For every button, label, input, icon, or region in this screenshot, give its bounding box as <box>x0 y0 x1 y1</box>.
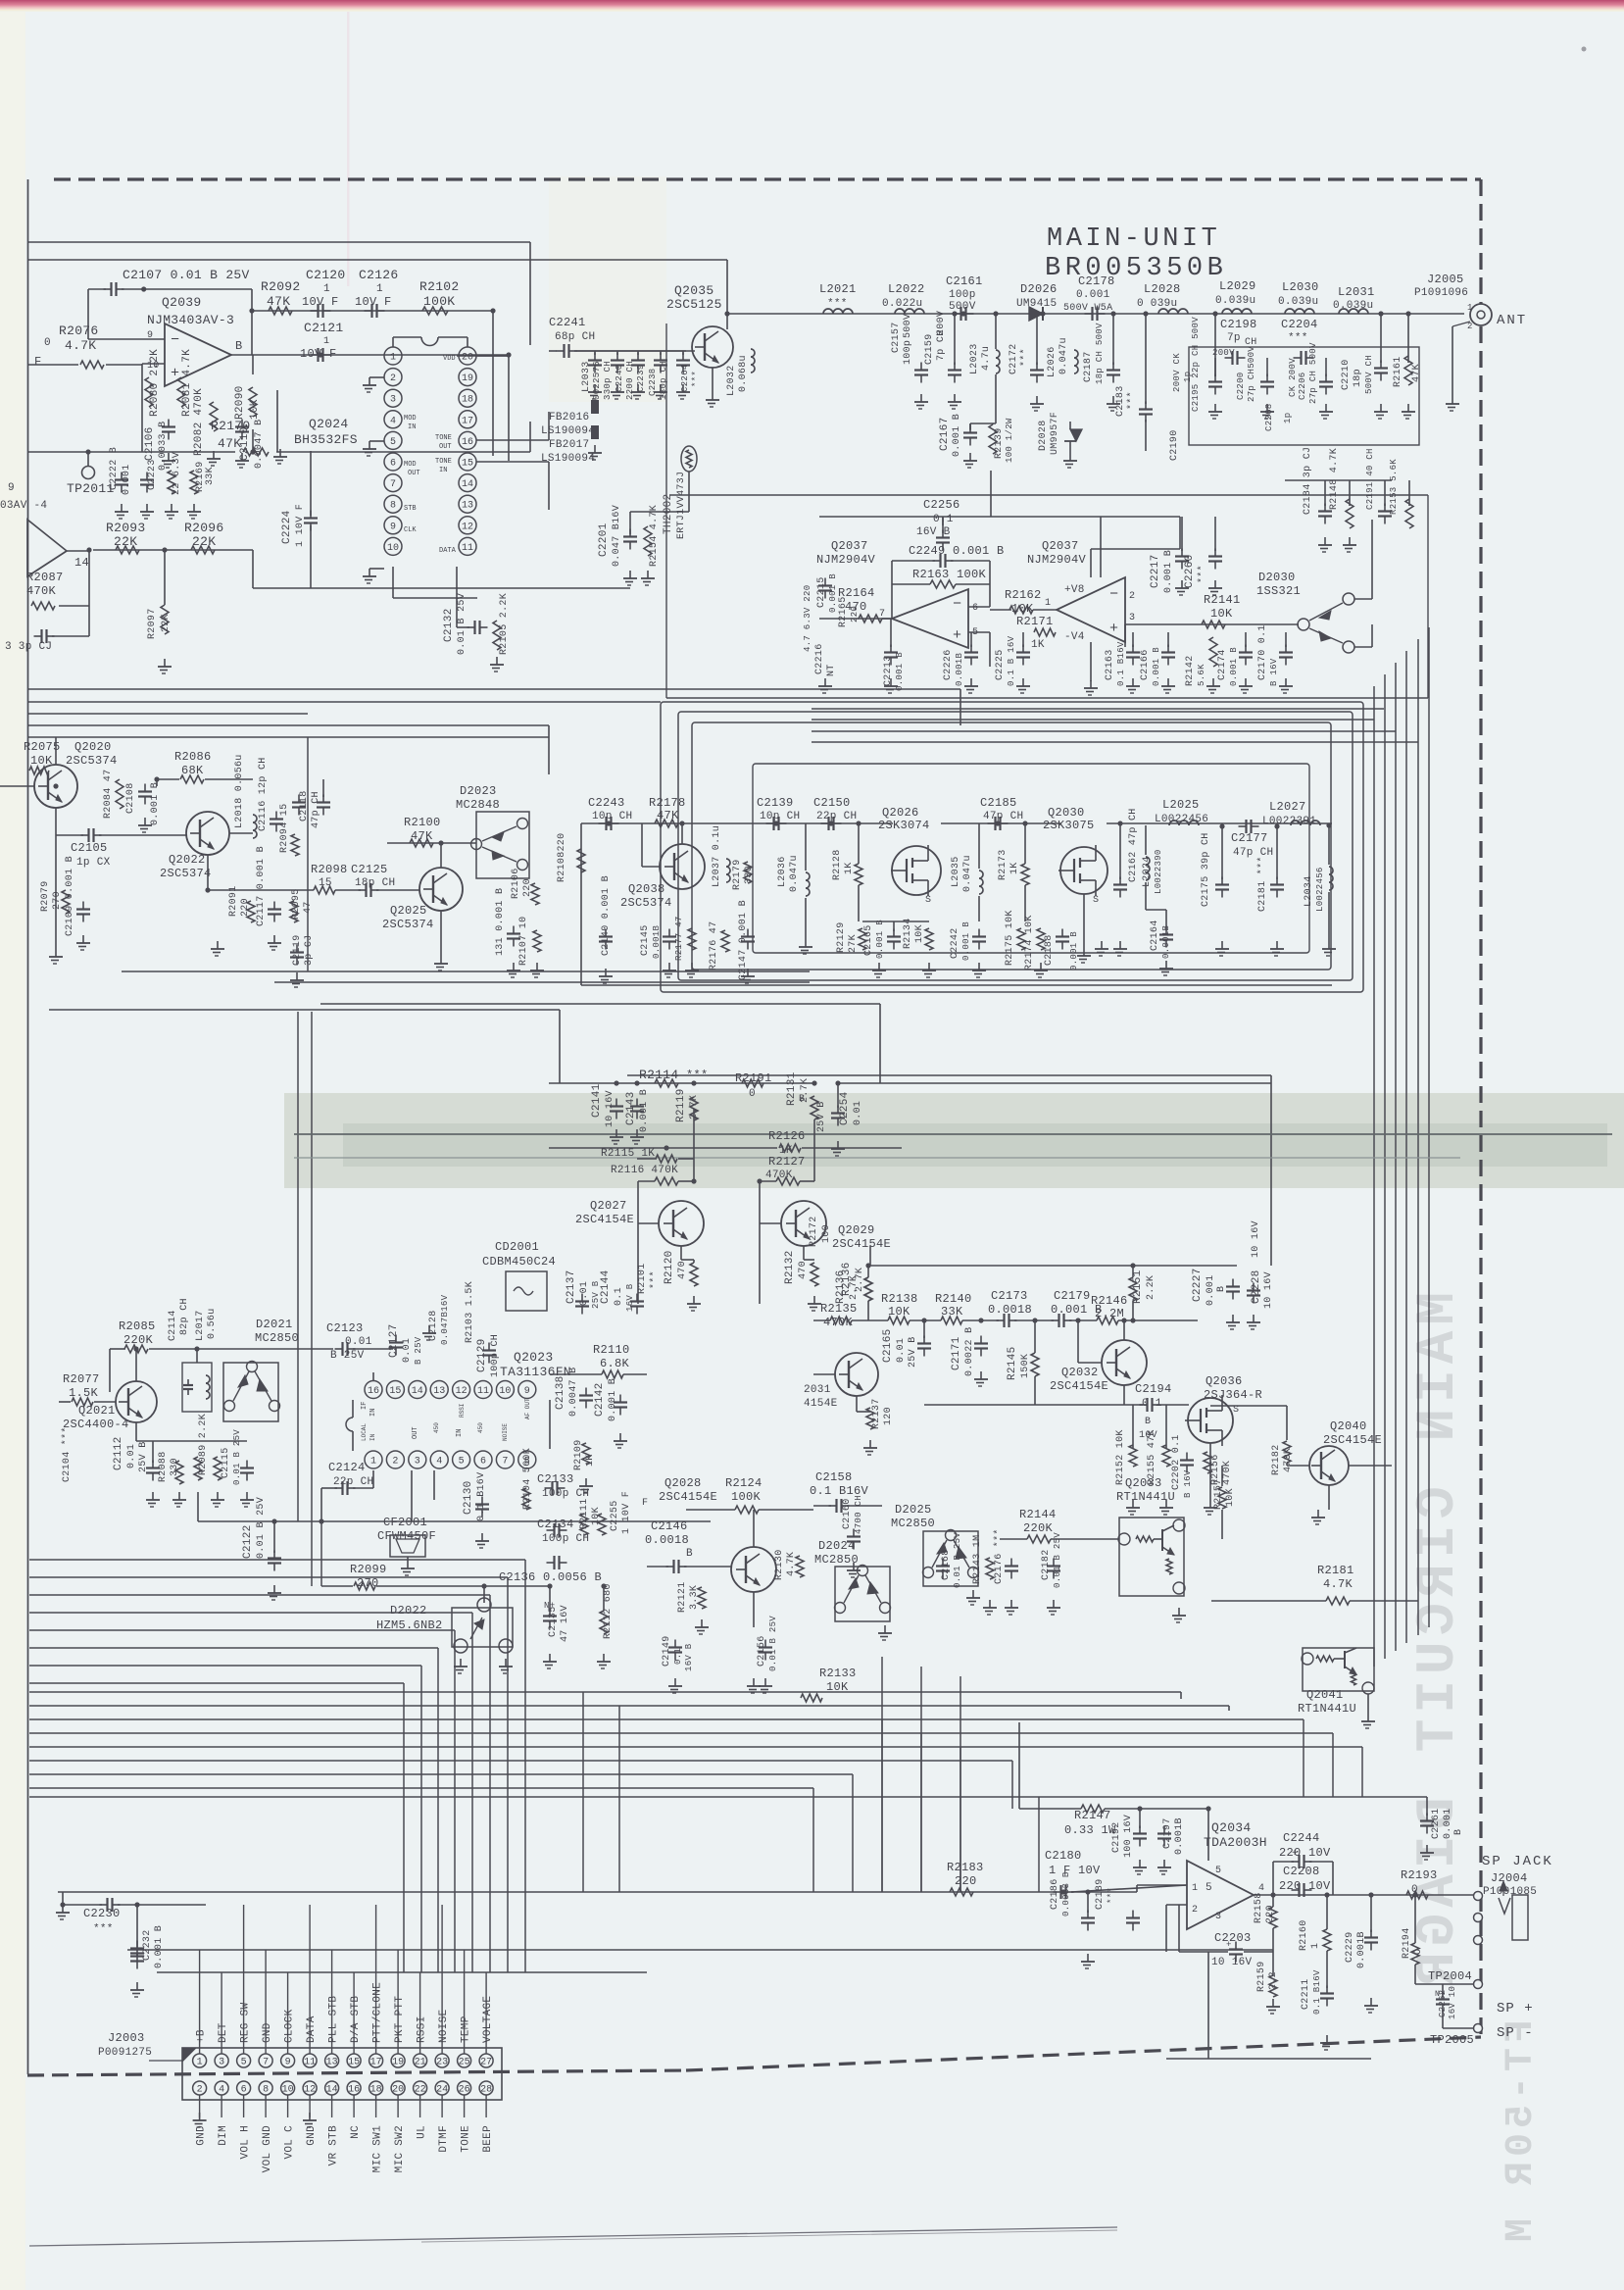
svg-text:33K: 33K <box>205 467 216 485</box>
svg-text:R2129: R2129 <box>836 921 847 953</box>
svg-text:C2244: C2244 <box>1283 1831 1320 1845</box>
svg-text:NJM2904V: NJM2904V <box>1027 553 1087 567</box>
svg-text:C2230: C2230 <box>83 1907 121 1920</box>
svg-text:18: 18 <box>370 2085 382 2096</box>
svg-text:MAIN-UNIT: MAIN-UNIT <box>1047 224 1220 254</box>
svg-text:6: 6 <box>390 459 396 470</box>
svg-text:2SC4154E: 2SC4154E <box>832 1237 891 1251</box>
svg-text:C2139: C2139 <box>757 796 794 810</box>
svg-text:MIC SW2: MIC SW2 <box>394 2125 406 2172</box>
svg-text:0.0047 B: 0.0047 B <box>568 1368 579 1417</box>
svg-text:CK 200V: CK 200V <box>1288 358 1298 397</box>
svg-text:Q2040: Q2040 <box>1330 1419 1367 1433</box>
svg-text:0.001 B: 0.001 B <box>961 921 971 961</box>
svg-text:4700 CH: 4700 CH <box>854 1495 863 1534</box>
svg-text:R2132: R2132 <box>784 1250 796 1284</box>
svg-text:4: 4 <box>219 2085 224 2096</box>
svg-text:R2130: R2130 <box>774 1549 785 1580</box>
svg-text:15: 15 <box>462 459 473 470</box>
svg-text:10K: 10K <box>914 924 925 943</box>
svg-text:68p CH: 68p CH <box>555 331 595 343</box>
svg-text:OUT: OUT <box>439 443 452 451</box>
svg-text:C2217: C2217 <box>1150 554 1161 588</box>
svg-text:R2119: R2119 <box>675 1088 687 1122</box>
svg-text:C2130: C2130 <box>463 1480 474 1515</box>
svg-text:Q2020: Q2020 <box>74 740 112 754</box>
svg-text:2031: 2031 <box>804 1384 831 1396</box>
svg-text:0: 0 <box>44 337 51 349</box>
svg-text:Q2027: Q2027 <box>590 1199 627 1213</box>
svg-text:C2241: C2241 <box>549 316 586 329</box>
svg-text:3 3p CJ: 3 3p CJ <box>5 641 52 653</box>
svg-text:10K: 10K <box>1225 1488 1236 1507</box>
svg-text:33K: 33K <box>941 1305 963 1319</box>
svg-text:4.7K: 4.7K <box>786 1552 797 1576</box>
svg-text:10 16V: 10 16V <box>1251 1220 1261 1258</box>
svg-text:R2136: R2136 <box>835 1269 847 1304</box>
svg-text:C2118: C2118 <box>299 790 310 821</box>
svg-text:0.01: 0.01 <box>126 1444 137 1469</box>
svg-text:7: 7 <box>263 2058 269 2068</box>
svg-text:R2177 47: R2177 47 <box>674 916 684 961</box>
svg-text:L2028: L2028 <box>1144 282 1181 296</box>
svg-text:2SC4154E: 2SC4154E <box>575 1213 634 1226</box>
svg-text:12: 12 <box>304 2085 316 2096</box>
svg-text:3: 3 <box>1215 1912 1221 1922</box>
svg-text:R2092: R2092 <box>261 279 301 294</box>
svg-text:D2025: D2025 <box>895 1503 932 1517</box>
svg-text:2: 2 <box>1192 1905 1198 1916</box>
svg-text:0.0047 B: 0.0047 B <box>254 420 265 469</box>
svg-text:OUT: OUT <box>408 470 420 477</box>
svg-text:1: 1 <box>1045 598 1051 609</box>
svg-text:03AV -4: 03AV -4 <box>0 500 47 512</box>
svg-text:0.01: 0.01 <box>345 1336 372 1348</box>
svg-text:330p CH: 330p CH <box>603 361 613 400</box>
svg-text:47K: 47K <box>657 809 679 822</box>
svg-text:GND: GND <box>196 2125 208 2146</box>
svg-text:47K: 47K <box>411 829 433 843</box>
svg-text:8: 8 <box>390 501 396 512</box>
svg-text:C2228: C2228 <box>1251 1269 1262 1304</box>
svg-text:21: 21 <box>415 2058 426 2068</box>
svg-text:1: 1 <box>1192 1883 1198 1894</box>
svg-text:C2225: C2225 <box>995 649 1006 680</box>
svg-text:R2094 15: R2094 15 <box>279 804 290 853</box>
svg-text:RSSI: RSSI <box>459 1404 466 1418</box>
svg-text:1 10V F: 1 10V F <box>621 1491 632 1534</box>
svg-text:9: 9 <box>147 330 153 341</box>
svg-text:L2025: L2025 <box>1162 798 1200 812</box>
svg-text:NC: NC <box>350 2125 362 2139</box>
svg-text:C2137: C2137 <box>566 1269 577 1304</box>
svg-text:***: *** <box>686 1069 709 1082</box>
svg-text:L2031: L2031 <box>1338 285 1375 299</box>
svg-text:R2098: R2098 <box>311 863 348 876</box>
svg-text:B: B <box>1216 1286 1227 1292</box>
svg-text:18p CH 500V: 18p CH 500V <box>1095 323 1105 384</box>
svg-text:R2096: R2096 <box>184 521 224 535</box>
svg-text:TONE: TONE <box>461 2125 472 2153</box>
svg-text:MOD: MOD <box>404 461 417 469</box>
svg-text:C2255: C2255 <box>610 1500 620 1531</box>
svg-text:C2179: C2179 <box>1054 1289 1091 1303</box>
svg-text:BEEP: BEEP <box>482 2125 494 2153</box>
svg-text:R2102: R2102 <box>419 279 460 294</box>
svg-text:C2132: C2132 <box>443 608 455 642</box>
svg-text:***: *** <box>1107 1887 1116 1904</box>
svg-text:FB2016: FB2016 <box>549 412 589 423</box>
svg-text:0.1 B16V: 0.1 B16V <box>1116 641 1126 686</box>
svg-text:C2188: C2188 <box>1044 934 1055 966</box>
svg-text:0.001 B: 0.001 B <box>150 782 161 825</box>
svg-text:2: 2 <box>390 373 396 384</box>
svg-text:R2133: R2133 <box>819 1667 857 1680</box>
svg-text:220: 220 <box>955 1874 977 1888</box>
svg-text:10K: 10K <box>249 399 261 420</box>
svg-text:R2174 10K: R2174 10K <box>1024 915 1035 971</box>
svg-text:B 25V: B 25V <box>414 1336 423 1365</box>
svg-text:R2082 470K: R2082 470K <box>193 388 205 456</box>
svg-text:R2076: R2076 <box>59 324 99 338</box>
svg-text:L2023: L2023 <box>969 343 980 374</box>
svg-text:10 16V: 10 16V <box>605 1090 615 1127</box>
svg-text:11: 11 <box>477 1386 489 1397</box>
svg-text:12: 12 <box>462 522 473 532</box>
svg-text:2SJ364-R: 2SJ364-R <box>1204 1388 1262 1402</box>
svg-text:C2104 ***: C2104 *** <box>61 1426 73 1482</box>
svg-text:0.047u: 0.047u <box>962 855 973 892</box>
svg-text:D2021: D2021 <box>256 1318 293 1331</box>
svg-text:10 16V: 10 16V <box>1211 1957 1253 1968</box>
svg-text:MC2850: MC2850 <box>255 1331 299 1345</box>
svg-text:0.001 B: 0.001 B <box>828 573 838 613</box>
svg-text:F: F <box>642 1498 648 1509</box>
svg-text:L2030: L2030 <box>1282 280 1319 294</box>
svg-text:150K: 150K <box>1020 1354 1031 1378</box>
svg-text:C2143: C2143 <box>625 1091 637 1125</box>
svg-text:2: 2 <box>1129 591 1135 602</box>
svg-text:C2123: C2123 <box>326 1321 364 1335</box>
svg-text:R2193: R2193 <box>1401 1868 1438 1882</box>
svg-text:1: 1 <box>1467 303 1473 313</box>
svg-text:Q2036: Q2036 <box>1206 1374 1243 1388</box>
svg-text:R2124: R2124 <box>725 1476 763 1490</box>
svg-text:13: 13 <box>326 2058 338 2068</box>
svg-text:C2200: C2200 <box>1236 372 1246 400</box>
svg-text:IF: IF <box>361 1402 369 1410</box>
svg-text:DTMF: DTMF <box>438 2125 450 2153</box>
svg-text:14: 14 <box>326 2085 338 2096</box>
svg-text:6: 6 <box>241 2085 247 2096</box>
svg-text:D2023: D2023 <box>460 784 497 798</box>
svg-text:R2159: R2159 <box>1256 1961 1267 1992</box>
svg-text:R2170: R2170 <box>211 419 251 433</box>
svg-text:0.001: 0.001 <box>1076 289 1110 301</box>
svg-text:0.039u: 0.039u <box>1278 296 1318 308</box>
svg-text:C2191 40 CH: C2191 40 CH <box>1365 448 1375 510</box>
svg-text:REG SW: REG SW <box>240 2002 252 2043</box>
svg-text:16V B: 16V B <box>916 526 951 538</box>
svg-text:2SC5374: 2SC5374 <box>66 754 118 768</box>
svg-text:4.7K: 4.7K <box>1323 1577 1353 1591</box>
svg-text:8: 8 <box>263 2085 269 2096</box>
svg-text:L2021: L2021 <box>819 282 857 296</box>
svg-text:NOISE: NOISE <box>502 1423 509 1441</box>
svg-text:0.0033 B: 0.0033 B <box>158 422 169 471</box>
svg-text:R2081 4.7K: R2081 4.7K <box>181 349 193 417</box>
svg-text:C2161: C2161 <box>946 274 983 288</box>
svg-text:C2243: C2243 <box>588 796 625 810</box>
svg-text:47K: 47K <box>218 436 241 451</box>
svg-text:0.01: 0.01 <box>896 1338 907 1363</box>
svg-text:1 F 10V: 1 F 10V <box>1049 1864 1101 1877</box>
svg-text:6: 6 <box>480 1457 486 1468</box>
svg-text:100p: 100p <box>949 289 976 301</box>
svg-text:C2181 ***: C2181 *** <box>1256 856 1268 912</box>
svg-text:C2178: C2178 <box>1078 274 1115 288</box>
svg-text:6.8K: 6.8K <box>600 1357 630 1370</box>
svg-text:TONE: TONE <box>435 458 452 466</box>
svg-text:25V B: 25V B <box>908 1336 918 1368</box>
svg-text:C2126: C2126 <box>359 268 399 282</box>
svg-text:100p: 100p <box>903 340 913 365</box>
svg-text:15: 15 <box>348 2058 360 2068</box>
svg-text:0.1: 0.1 <box>614 1287 624 1306</box>
svg-text:R2101: R2101 <box>637 1263 648 1294</box>
svg-text:L2033: L2033 <box>581 361 592 392</box>
svg-text:PTT/CLONE: PTT/CLONE <box>372 1982 384 2043</box>
svg-text:17: 17 <box>462 416 473 426</box>
svg-text:Q2032: Q2032 <box>1061 1366 1099 1379</box>
svg-text:C2239: C2239 <box>636 364 646 392</box>
svg-text:Q2025: Q2025 <box>390 904 427 918</box>
svg-text:R2143 1M: R2143 1M <box>972 1535 983 1584</box>
svg-text:18: 18 <box>462 395 473 406</box>
svg-text:R2144: R2144 <box>1019 1508 1057 1521</box>
svg-text:Q2039: Q2039 <box>162 295 202 310</box>
svg-text:IN: IN <box>369 1409 377 1417</box>
svg-text:D2030: D2030 <box>1258 571 1296 584</box>
svg-text:0.0018: 0.0018 <box>645 1533 689 1547</box>
svg-text:11: 11 <box>304 2058 316 2068</box>
svg-text:TH2002: TH2002 <box>663 494 674 534</box>
svg-text:22 6.3V: 22 6.3V <box>172 452 182 495</box>
svg-text:C2105: C2105 <box>71 841 108 855</box>
svg-text:R2141: R2141 <box>1204 593 1241 607</box>
svg-text:6: 6 <box>972 603 978 614</box>
svg-text:MOD: MOD <box>404 415 417 423</box>
svg-text:0.01 B 25V: 0.01 B 25V <box>457 593 468 655</box>
svg-text:220: 220 <box>522 878 533 897</box>
svg-text:R2175 10K: R2175 10K <box>1005 910 1015 966</box>
svg-text:VOL GND: VOL GND <box>262 2125 273 2172</box>
svg-text:20: 20 <box>462 353 473 364</box>
svg-text:B: B <box>235 339 243 353</box>
svg-text:27p CH 500V: 27p CH 500V <box>1308 342 1318 404</box>
svg-text:MC2850: MC2850 <box>814 1553 859 1567</box>
svg-text:3: 3 <box>390 395 396 406</box>
svg-text:L2032: L2032 <box>726 365 737 396</box>
svg-text:RSSI: RSSI <box>417 2016 428 2043</box>
svg-text:9: 9 <box>390 522 396 532</box>
svg-text:100: 100 <box>821 1224 832 1243</box>
svg-text:Q2038: Q2038 <box>628 882 665 896</box>
svg-text:R2088: R2088 <box>158 1451 169 1482</box>
svg-text:IN: IN <box>439 467 447 474</box>
svg-text:0.039u: 0.039u <box>1215 295 1255 307</box>
svg-text:2SK3075: 2SK3075 <box>1043 819 1095 832</box>
svg-text:R2165: R2165 <box>838 596 849 627</box>
svg-text:C2136 0.0056 B: C2136 0.0056 B <box>499 1570 602 1584</box>
svg-text:C2162 47p CH: C2162 47p CH <box>1128 808 1139 882</box>
svg-text:C2198: C2198 <box>1220 318 1257 331</box>
svg-text:R2160: R2160 <box>1299 1919 1309 1951</box>
svg-text:R2127: R2127 <box>768 1155 806 1169</box>
svg-text:4: 4 <box>436 1457 442 1468</box>
svg-text:0.047B16V: 0.047B16V <box>440 1294 450 1345</box>
svg-text:C2175 39p CH: C2175 39p CH <box>1201 832 1211 907</box>
svg-text:R2139: R2139 <box>994 427 1005 459</box>
svg-text:22p CH: 22p CH <box>816 811 857 822</box>
svg-text:C2108: C2108 <box>125 782 136 814</box>
svg-text:R2134: R2134 <box>903 918 913 949</box>
svg-text:C2146: C2146 <box>651 1519 688 1533</box>
svg-text:47p CH: 47p CH <box>311 791 321 828</box>
svg-text:−: − <box>953 596 961 613</box>
svg-text:13: 13 <box>462 501 473 512</box>
svg-text:C2211: C2211 <box>1301 1978 1311 2010</box>
svg-text:C2164: C2164 <box>1150 920 1160 951</box>
svg-text:C2222 B: C2222 B <box>109 447 120 490</box>
svg-text:1K: 1K <box>1009 862 1020 874</box>
svg-text:R2131: R2131 <box>786 1071 798 1106</box>
svg-text:20: 20 <box>392 2085 404 2096</box>
svg-text:PKT PTT: PKT PTT <box>394 1996 406 2043</box>
svg-text:14: 14 <box>74 556 89 570</box>
svg-text:R2173: R2173 <box>998 849 1009 880</box>
svg-text:R2153 5.6K: R2153 5.6K <box>1389 459 1399 515</box>
svg-text:C2147 0.001 B: C2147 0.001 B <box>738 900 749 980</box>
svg-text:0.01 B 25V: 0.01 B 25V <box>953 1532 962 1588</box>
svg-text:0.001 B: 0.001 B <box>875 920 885 959</box>
svg-text:FT-50R M: FT-50R M <box>1500 2019 1544 2247</box>
svg-text:L2035: L2035 <box>951 856 961 887</box>
svg-text:C2202 0.1: C2202 0.1 <box>1171 1434 1182 1490</box>
svg-text:0.01: 0.01 <box>402 1338 413 1363</box>
svg-text:0.001 B: 0.001 B <box>1152 647 1161 686</box>
svg-text:R2089 2.2K: R2089 2.2K <box>198 1414 209 1475</box>
svg-text:Q2023: Q2023 <box>514 1350 554 1365</box>
svg-text:10: 10 <box>387 543 399 554</box>
svg-text:C2173: C2173 <box>991 1289 1028 1303</box>
svg-text:FB2017: FB2017 <box>549 439 589 451</box>
svg-text:C2192: C2192 <box>1111 1821 1122 1853</box>
svg-text:Q2028: Q2028 <box>664 1476 702 1490</box>
svg-text:B: B <box>686 1548 693 1560</box>
svg-text:B: B <box>1453 1829 1464 1835</box>
svg-text:Q2035: Q2035 <box>674 283 714 298</box>
svg-text:C2127: C2127 <box>388 1323 400 1358</box>
svg-text:16: 16 <box>462 437 473 448</box>
svg-text:***: *** <box>1197 565 1208 583</box>
svg-text:0.001 B: 0.001 B <box>154 1925 165 1968</box>
svg-text:100 16V: 100 16V <box>1123 1815 1134 1858</box>
svg-text:10p CH: 10p CH <box>592 811 632 822</box>
svg-text:R2145: R2145 <box>1007 1346 1018 1380</box>
svg-text:26: 26 <box>459 2085 470 2096</box>
svg-text:DIM: DIM <box>218 2125 229 2146</box>
svg-text:C2125: C2125 <box>351 863 388 876</box>
svg-text:VOLTAGE: VOLTAGE <box>482 1996 494 2043</box>
svg-text:2SC5374: 2SC5374 <box>382 918 434 931</box>
svg-text:L2017: L2017 <box>195 1310 206 1341</box>
svg-text:GND: GND <box>262 2022 273 2043</box>
svg-text:C2180: C2180 <box>1045 1849 1082 1863</box>
svg-text:0.047u: 0.047u <box>789 855 800 892</box>
svg-text:131 0.001 B: 131 0.001 B <box>495 888 506 956</box>
svg-text:450: 450 <box>433 1422 440 1433</box>
svg-text:R2075: R2075 <box>24 740 61 754</box>
svg-text:C2194: C2194 <box>1135 1382 1172 1396</box>
svg-text:C2186: C2186 <box>1050 1878 1060 1910</box>
svg-text:R2147: R2147 <box>1074 1809 1111 1822</box>
svg-text:L2022: L2022 <box>888 282 925 296</box>
svg-text:9: 9 <box>8 482 15 494</box>
svg-text:IN: IN <box>456 1429 464 1437</box>
svg-text:0.001 B: 0.001 B <box>1163 550 1174 593</box>
svg-text:C2167: C2167 <box>939 417 951 451</box>
svg-text:0.0022 B: 0.0022 B <box>964 1327 975 1376</box>
svg-text:C2122: C2122 <box>242 1524 254 1559</box>
svg-text:5.6K: 5.6K <box>1197 664 1206 686</box>
svg-text:100p CH: 100p CH <box>542 1488 589 1500</box>
svg-text:C2159: C2159 <box>924 333 935 365</box>
svg-text:C2216: C2216 <box>814 643 825 674</box>
svg-text:25: 25 <box>459 2058 470 2068</box>
svg-text:47p CH: 47p CH <box>983 811 1023 822</box>
svg-text:1: 1 <box>370 1457 376 1468</box>
svg-text:220: 220 <box>850 606 860 622</box>
svg-text:R2158: R2158 <box>1254 1892 1264 1923</box>
svg-text:120: 120 <box>883 1407 894 1425</box>
svg-text:MC2850: MC2850 <box>891 1517 935 1530</box>
svg-text:C2116 12p CH: C2116 12p CH <box>258 757 269 831</box>
svg-text:+V8: +V8 <box>1064 584 1085 596</box>
svg-text:500V: 500V <box>903 314 913 338</box>
svg-text:C2187: C2187 <box>1083 351 1094 382</box>
svg-text:UL: UL <box>417 2125 428 2139</box>
svg-text:1: 1 <box>1310 1943 1321 1949</box>
svg-text:ANT: ANT <box>1497 313 1527 328</box>
svg-text:C2158: C2158 <box>815 1470 853 1484</box>
svg-text:5: 5 <box>459 1457 465 1468</box>
svg-text:R2128: R2128 <box>832 849 843 880</box>
svg-text:+: + <box>1292 1849 1298 1860</box>
svg-text:10V F: 10V F <box>355 295 392 309</box>
svg-text:22p CH: 22p CH <box>333 1476 373 1488</box>
svg-text:82p CH: 82p CH <box>179 1298 190 1335</box>
svg-text:47K: 47K <box>1411 364 1422 382</box>
svg-text:R2084 47: R2084 47 <box>103 770 114 819</box>
svg-text:TDA2003H: TDA2003H <box>1204 1835 1267 1850</box>
svg-text:C2227: C2227 <box>1192 1268 1204 1302</box>
svg-text:L0022456: L0022456 <box>1315 867 1325 912</box>
svg-text:R2106: R2106 <box>511 868 521 899</box>
svg-text:0022576: 0022576 <box>592 361 602 400</box>
svg-text:R2116 470K: R2116 470K <box>611 1165 678 1176</box>
svg-text:TP2005: TP2005 <box>1430 2033 1474 2047</box>
